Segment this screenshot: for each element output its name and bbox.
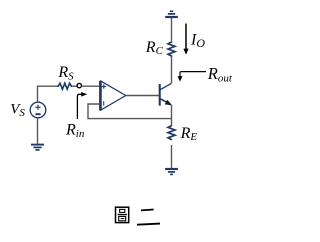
voltage source VS	[30, 102, 46, 118]
arrow Rin	[77, 92, 87, 119]
op-amp U1	[100, 81, 125, 111]
ground (VS)	[31, 145, 44, 150]
resistor RC	[168, 42, 175, 57]
svg-text:IO: IO	[190, 32, 205, 51]
transistor Q1	[160, 83, 173, 105]
wire RC to supply	[171, 18, 173, 42]
svg-text:RC: RC	[145, 39, 164, 57]
wire feedback from emitter to op-amp minus input	[88, 104, 172, 119]
wire VS top to RS	[38, 86, 58, 102]
svg-text:RS: RS	[57, 64, 74, 82]
arrow Rout	[178, 72, 206, 82]
wire emitter to RE	[171, 105, 173, 125]
svg-text:VS: VS	[10, 101, 25, 119]
svg-text:Rin: Rin	[65, 121, 85, 139]
power supply rail (inverted ground)	[165, 11, 178, 17]
wire collector to RC	[171, 57, 173, 84]
wire node to op-amp + input	[82, 85, 100, 87]
ground (RE)	[165, 169, 178, 174]
svg-text:Rout: Rout	[207, 64, 233, 84]
svg-text:RE: RE	[180, 125, 198, 143]
wire op-amp output to Q1 base	[126, 95, 159, 97]
wire VS to ground	[37, 118, 39, 144]
current arrow IO	[183, 24, 188, 55]
caption glyph 圖	[116, 207, 129, 222]
wire RE to ground	[171, 145, 173, 168]
resistor RE	[168, 125, 175, 140]
node input (open circle)	[77, 83, 81, 87]
caption glyph 二	[137, 210, 160, 225]
wire RS to node	[72, 85, 77, 87]
resistor RS	[57, 83, 72, 89]
